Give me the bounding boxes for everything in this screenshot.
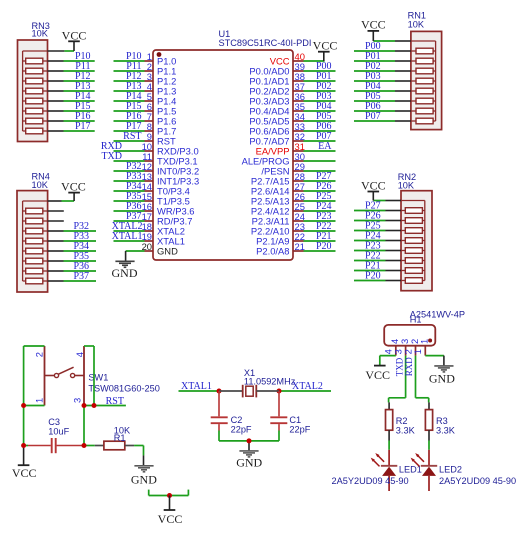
svg-text:21: 21: [295, 241, 305, 252]
resistor RN1 element 8: [411, 118, 436, 124]
pin 5 (P1.4): [145, 91, 177, 106]
wire net TXD (chip left, pin 11): [114, 160, 145, 162]
net label P03 (RN1 side): [365, 71, 381, 82]
wire net P16 (RN3 side): [48, 120, 95, 122]
pin 23 (P2.2/A10): [251, 221, 305, 236]
pin 26 (P2.5/A13): [251, 191, 305, 206]
net label P23 (RN2 side): [365, 241, 381, 252]
pin 11 (TXD/P3.1): [142, 151, 197, 166]
pin 13 (INT1/P3.3): [142, 171, 200, 186]
wire net P14 (RN3 side): [48, 100, 95, 102]
resistor RN2 element 6: [401, 258, 425, 264]
svg-text:3: 3: [72, 398, 83, 403]
net label EA: [318, 141, 332, 152]
svg-text:2: 2: [33, 352, 44, 357]
designator SW1: [88, 373, 108, 383]
net label P02: [316, 81, 332, 92]
svg-text:10K: 10K: [398, 181, 415, 191]
value TSW081G60-250: [88, 384, 159, 394]
net label P10 (RN3 side): [75, 51, 91, 62]
designator RN2: [398, 172, 416, 182]
wire net P33 (chip left, pin 13): [114, 180, 145, 182]
net label P26: [316, 181, 332, 192]
resistor RN1 element 6: [411, 98, 436, 104]
wire net P35 (RN4 side): [48, 260, 96, 262]
LED LED2: [411, 450, 438, 491]
designator R3: [436, 416, 448, 426]
wire net P02 (RN1 side): [354, 70, 411, 72]
net label XTAL2: [112, 221, 143, 232]
wire net P27 (RN2 side): [354, 210, 401, 212]
svg-text:GND: GND: [429, 371, 455, 385]
net label P33: [126, 171, 142, 182]
value 11.0592MHz: [244, 376, 296, 386]
svg-text:10uF: 10uF: [48, 427, 69, 437]
wire net P37 (RN4 side): [48, 280, 96, 282]
wire net P24 (RN2 side): [354, 240, 401, 242]
ground (chip pin 20): [112, 261, 138, 280]
op-amp U1 body (STC89C51RC-40I-PDI microcontroller): [153, 50, 293, 260]
net label P32 (RN4 side): [73, 221, 89, 232]
svg-text:STC89C51RC-40I-PDI: STC89C51RC-40I-PDI: [219, 38, 312, 48]
svg-text:GND: GND: [112, 266, 138, 280]
svg-text:VCC: VCC: [361, 178, 386, 192]
designator X1: [244, 368, 255, 378]
wire XTAL2: [279, 390, 331, 392]
net label P35 (RN4 side): [73, 251, 89, 262]
power VCC (RN3): [62, 28, 87, 51]
pin 40 (VCC): [270, 51, 305, 66]
RN3 common bus: [23, 51, 48, 131]
net label P17 (RN3 side): [75, 121, 91, 132]
designator C3: [48, 417, 60, 427]
svg-text:3.3K: 3.3K: [396, 425, 416, 435]
pin 27 (P2.6/A14): [251, 181, 305, 196]
value 10uF: [48, 427, 69, 437]
net label P17: [126, 121, 142, 132]
svg-text:H1: H1: [410, 314, 422, 324]
wire net P00 (RN1 side): [354, 50, 411, 52]
pin 19 (XTAL1): [142, 231, 185, 246]
junction SW1 pin1: [21, 403, 26, 408]
pin 17 (RD/P3.7): [142, 211, 193, 226]
resistor RN1 element 1: [411, 48, 436, 54]
net label P21: [316, 231, 332, 242]
resistor RN3 element 8: [23, 128, 48, 134]
svg-text:EA: EA: [318, 141, 332, 152]
net label P24: [316, 201, 332, 212]
wire H1 pin4 to VCC: [380, 356, 396, 365]
RN4 unconnected pin 3: [48, 220, 64, 222]
value 10K (RN2): [398, 181, 415, 191]
wire net P10 (chip left, pin 1): [114, 60, 145, 62]
value 22pF (C2): [231, 425, 252, 435]
pin 14 (T0/P3.4): [142, 181, 190, 196]
junction ground rail: [247, 438, 252, 443]
net label P07 (RN1 side): [365, 111, 381, 122]
designator LED2: [439, 465, 462, 475]
net label P05 (RN1 side): [365, 91, 381, 102]
pin 15 (T1/P3.5): [142, 191, 190, 206]
svg-text:TXD: TXD: [101, 151, 122, 162]
svg-text:22pF: 22pF: [289, 425, 310, 435]
pin 34 (P0.5/AD5): [249, 111, 305, 126]
wire net P01 (RN1 side): [354, 60, 411, 62]
wire net P37 (chip left, pin 17): [114, 220, 145, 222]
power VCC (below C3): [12, 446, 37, 481]
svg-text:VCC: VCC: [61, 180, 86, 194]
resistor network RN2 body: [401, 191, 432, 291]
pin 25 (P2.4/A12): [251, 201, 305, 216]
power VCC (RN1): [361, 17, 386, 41]
pin 29 (/PESN): [261, 161, 305, 176]
wire net P23 (RN2 side): [354, 250, 401, 252]
pin 28 (P2.7/A15): [251, 171, 305, 186]
wire net P32 (RN4 side): [48, 230, 96, 232]
net label P12: [126, 71, 142, 82]
junction SW1 pin4 loop: [92, 403, 97, 408]
power VCC (RN2): [361, 178, 386, 200]
H1 pin 3 stub: [405, 346, 407, 356]
wire pin20 to ground: [126, 251, 145, 261]
net label P27: [316, 171, 332, 182]
wire chip pin 30: [304, 160, 336, 162]
H1 pin number 1: [412, 349, 423, 354]
resistor RN2 element 7: [401, 268, 425, 274]
svg-text:R1: R1: [114, 433, 126, 443]
net label P06: [316, 121, 332, 132]
switch SW1 contacts and lever: [45, 367, 85, 377]
wire SW1 left loop: [24, 346, 45, 446]
wire net P03 (RN1 side): [354, 80, 411, 82]
wire net RST (chip left, pin 9): [114, 140, 145, 142]
wire RN2 common to VCC: [373, 200, 401, 202]
svg-text:4: 4: [74, 352, 85, 357]
svg-text:SW1: SW1: [88, 373, 108, 383]
wire R1 input: [84, 445, 95, 447]
net label P16: [126, 111, 142, 122]
wire net P36 (chip left, pin 16): [114, 210, 145, 212]
pin 2 (P1.1): [145, 61, 177, 76]
net label P14: [126, 91, 142, 102]
RN1 common bus: [411, 41, 436, 121]
SW1 pin number 3: [72, 398, 83, 403]
value 3.3K (R3): [436, 425, 456, 435]
wire R1 to ground: [134, 446, 143, 466]
net label P11 (RN3 side): [75, 61, 90, 72]
resistor RN3 element 7: [23, 118, 48, 124]
wire chip pin 34: [304, 120, 336, 122]
wire net P15 (chip left, pin 6): [114, 110, 145, 112]
svg-text:VCC: VCC: [361, 17, 386, 31]
svg-text:XTAL1: XTAL1: [112, 231, 143, 242]
value 10K (RN1): [408, 20, 425, 30]
wire RST net: [84, 406, 126, 446]
wire LED1 anode: [388, 441, 390, 450]
H1 pin name 3: [399, 339, 410, 344]
net label P05: [316, 111, 332, 122]
resistor RN1 element 3: [411, 68, 436, 74]
svg-text:2A5Y2UD09 45-90: 2A5Y2UD09 45-90: [439, 476, 516, 486]
net label P37: [126, 211, 142, 222]
net label XTAL1 (crystal side): [181, 381, 212, 392]
wire net P16 (chip left, pin 7): [114, 120, 145, 122]
junction C3 right: [82, 443, 87, 448]
net label P01 (RN1 side): [365, 51, 381, 62]
designator RN1: [408, 11, 426, 21]
net label P20: [316, 241, 332, 252]
H1 pin 4 stub: [395, 346, 397, 356]
wire net P33 (RN4 side): [48, 240, 96, 242]
ground (R1): [131, 466, 157, 487]
resistor RN2 element 8: [401, 278, 425, 284]
pin 30 (ALE/PROG): [242, 151, 305, 166]
svg-text:1: 1: [412, 349, 423, 354]
wire chip pin 38: [304, 80, 336, 82]
net label P14 (RN3 side): [75, 91, 91, 102]
svg-text:2A5Y2UD09 45-90: 2A5Y2UD09 45-90: [332, 476, 409, 486]
wire net P34 (RN4 side): [48, 250, 96, 252]
svg-text:1: 1: [419, 339, 430, 344]
resistor RN3 element 4: [23, 88, 48, 94]
pin 12 (INT0/P3.2): [142, 161, 200, 176]
wire chip pin 32: [304, 140, 336, 142]
H1 pin number 2: [402, 349, 413, 354]
designator U1: [219, 29, 231, 39]
wire net P10 (RN3 side): [48, 60, 95, 62]
wire net P06 (RN1 side): [354, 110, 411, 112]
net label XTAL1: [112, 231, 143, 242]
net label P37 (RN4 side): [73, 271, 89, 282]
wire chip pin 25: [304, 210, 336, 212]
svg-text:VCC: VCC: [313, 38, 338, 52]
svg-text:VCC: VCC: [12, 466, 37, 480]
wire chip pin 21: [304, 250, 336, 252]
wire net P13 (RN3 side): [48, 90, 95, 92]
pin 16 (WR/P3.6): [142, 201, 195, 216]
pin 22 (P2.1/A9): [256, 231, 305, 246]
H1 pin number 4: [383, 349, 394, 354]
SW1 pin number 4: [74, 352, 85, 357]
H1 pin 1 stub: [424, 346, 426, 356]
svg-text:VCC: VCC: [158, 512, 183, 526]
value 10K (R1): [114, 426, 131, 436]
pin 3 (P1.2): [145, 71, 177, 86]
pin 39 (P0.0/AD0): [249, 61, 305, 76]
net label P13: [126, 81, 142, 92]
wire net P20 (RN2 side): [354, 280, 401, 282]
resistor R3: [425, 402, 432, 440]
net label XTAL2 (crystal side): [292, 381, 323, 392]
resistor RN2 element 5: [401, 248, 425, 254]
resistor RN4 element 2: [23, 218, 48, 224]
wire TXD net (H1 pin 3): [389, 356, 406, 403]
wire net P11 (RN3 side): [48, 70, 95, 72]
wire net P25 (RN2 side): [354, 230, 401, 232]
wire net RXD (chip left, pin 10): [114, 150, 145, 152]
junction crystal right: [277, 389, 282, 394]
resistor RN3 element 5: [23, 98, 48, 104]
net label P36: [126, 201, 142, 212]
pin 38 (P0.1/AD1): [249, 71, 305, 86]
net label P13 (RN3 side): [75, 81, 91, 92]
ground (crystal caps): [236, 441, 262, 469]
wire SW1 right loop: [84, 346, 94, 406]
wire chip pin 29: [304, 170, 336, 172]
net label TXD: [394, 357, 404, 376]
junction crystal left: [217, 389, 222, 394]
SW1 pin number 1: [33, 398, 44, 403]
net label P34 (RN4 side): [73, 241, 89, 252]
resistor network RN4 body: [17, 191, 48, 292]
power VCC (RN4): [61, 180, 86, 202]
designator RN3: [32, 21, 50, 31]
resistor RN3 element 1: [23, 58, 48, 64]
resistor RN2 element 1: [401, 208, 425, 214]
svg-text:P17: P17: [75, 121, 91, 132]
wire chip pin 31: [304, 150, 336, 152]
resistor R1: [95, 441, 134, 450]
net label P01: [316, 71, 332, 82]
wire net P21 (RN2 side): [354, 270, 401, 272]
svg-text:11.0592MHz: 11.0592MHz: [244, 376, 296, 386]
H1 pin 2 stub: [415, 346, 417, 356]
wire net P12 (RN3 side): [48, 80, 95, 82]
value STC89C51RC-40I-PDI: [219, 38, 312, 48]
wire net P14 (chip left, pin 5): [114, 100, 145, 102]
wire net P26 (RN2 side): [354, 220, 401, 222]
wire chip pin 24: [304, 220, 336, 222]
wire RN3 common to VCC: [48, 50, 75, 52]
svg-text:RST: RST: [106, 396, 124, 407]
crystal X1: [219, 385, 279, 398]
pin 35 (P0.4/AD4): [249, 101, 305, 116]
net label P10: [126, 51, 142, 62]
wire chip pin 22: [304, 240, 336, 242]
wire net P32 (chip left, pin 12): [114, 170, 145, 172]
net label RST: [123, 131, 141, 142]
designator RN4: [32, 171, 50, 181]
LED LED1: [371, 450, 398, 491]
pin 7 (P1.6): [145, 111, 177, 126]
wire chip pin 26: [304, 200, 336, 202]
net label P32: [126, 161, 142, 172]
net label P11: [126, 61, 141, 72]
pin 4 (P1.3): [145, 81, 177, 96]
svg-text:LED2: LED2: [439, 465, 462, 475]
resistor RN3 element 2: [23, 68, 48, 74]
resistor RN1 element 4: [411, 78, 436, 84]
net label P15: [126, 101, 142, 112]
wire XTAL1: [179, 390, 220, 392]
net label P00: [316, 61, 332, 72]
net label P07: [316, 131, 332, 142]
value 10K (RN3): [32, 29, 49, 39]
net label P27 (RN2 side): [365, 201, 381, 212]
pin 24 (P2.3/A11): [252, 211, 305, 226]
H1 pin name 2: [409, 339, 420, 344]
wire RN1 common to VCC: [373, 40, 411, 42]
svg-text:P07: P07: [365, 111, 381, 122]
svg-text:P2.0/A8: P2.0/A8: [256, 245, 289, 256]
value 10K (RN4): [32, 180, 49, 190]
pin 18 (XTAL2): [142, 221, 185, 236]
net label P04 (RN1 side): [365, 81, 381, 92]
resistor RN1 element 7: [411, 108, 436, 114]
net label P22 (RN2 side): [365, 251, 381, 262]
svg-text:P37: P37: [73, 271, 89, 282]
capacitor C1: [270, 391, 287, 441]
wire net P11 (chip left, pin 2): [114, 70, 145, 72]
designator R1: [114, 433, 126, 443]
H1 pin number 3: [392, 349, 403, 354]
net label RST: [106, 396, 124, 407]
net label P25 (RN2 side): [365, 221, 381, 232]
net label P23: [316, 211, 332, 222]
wire VCC stub bracket: [149, 490, 189, 496]
resistor RN2 element 4: [401, 238, 425, 244]
power VCC (H1 pin 4): [365, 365, 390, 382]
svg-text:22pF: 22pF: [231, 425, 252, 435]
net label RXD: [404, 357, 414, 377]
net label P02 (RN1 side): [365, 61, 381, 72]
wire net XTAL2 (chip left, pin 18): [114, 230, 145, 232]
wire net P34 (chip left, pin 14): [114, 190, 145, 192]
value 22pF (C1): [289, 425, 310, 435]
capacitor C2: [211, 391, 228, 441]
svg-text:10K: 10K: [408, 20, 425, 30]
pin 20 (GND): [142, 241, 179, 256]
wire net P15 (RN3 side): [48, 110, 95, 112]
resistor RN4 element 5: [23, 248, 48, 254]
resistor RN4 element 4: [23, 238, 48, 244]
net label P33 (RN4 side): [73, 231, 89, 242]
net label P26 (RN2 side): [365, 211, 381, 222]
wire chip pin 23: [304, 230, 336, 232]
net label P20 (RN2 side): [365, 271, 381, 282]
net label RXD: [101, 141, 122, 152]
net label P25: [316, 191, 332, 202]
power VCC (chip pin 40): [313, 38, 338, 61]
switch SW1 rails: [45, 346, 85, 406]
resistor RN1 element 2: [411, 58, 436, 64]
net label P35: [126, 191, 142, 202]
svg-text:10K: 10K: [32, 180, 49, 190]
wire net P35 (chip left, pin 15): [114, 200, 145, 202]
designator LED1: [399, 465, 422, 475]
wire pin40 to VCC: [304, 60, 325, 62]
designator C2: [231, 415, 243, 425]
svg-text:10K: 10K: [32, 29, 49, 39]
pin 6 (P1.5): [145, 101, 177, 116]
wire net P17 (chip left, pin 8): [114, 130, 145, 132]
net label P06 (RN1 side): [365, 101, 381, 112]
pin 21 (P2.0/A8): [256, 241, 305, 256]
svg-text:3.3K: 3.3K: [436, 425, 456, 435]
net label P03: [316, 91, 332, 102]
value A2541WV-4P: [410, 310, 465, 320]
svg-text:GND: GND: [131, 473, 157, 487]
designator C1: [289, 415, 301, 425]
resistor RN4 element 7: [23, 268, 48, 274]
net label TXD: [101, 151, 122, 162]
pin 9 (RST): [145, 131, 177, 146]
svg-text:TXD: TXD: [394, 357, 404, 376]
resistor R2: [386, 402, 393, 440]
svg-text:P20: P20: [365, 271, 381, 282]
wire RN4 common to VCC: [48, 200, 75, 202]
pin 8 (P1.7): [145, 121, 177, 136]
